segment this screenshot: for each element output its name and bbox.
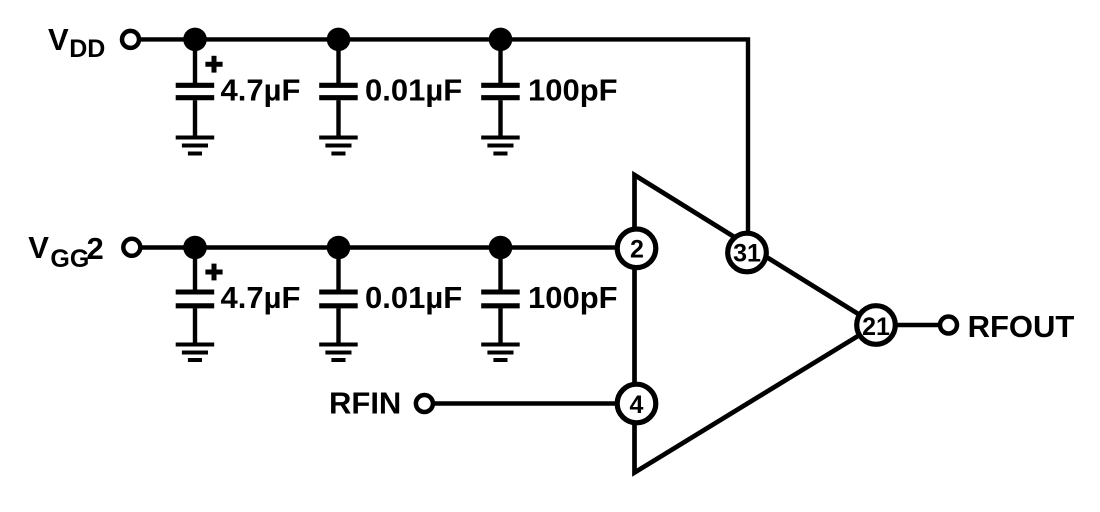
svg-text:4.7µF: 4.7µF	[221, 280, 301, 315]
svg-text:V: V	[28, 230, 49, 265]
svg-text:100pF: 100pF	[528, 280, 618, 315]
svg-text:100pF: 100pF	[528, 72, 618, 107]
svg-text:4.7µF: 4.7µF	[221, 72, 301, 107]
svg-text:2: 2	[87, 231, 104, 266]
svg-text:0.01µF: 0.01µF	[365, 280, 462, 315]
svg-text:GG: GG	[50, 245, 89, 273]
svg-text:V: V	[48, 22, 69, 57]
svg-text:4: 4	[630, 391, 644, 419]
svg-text:31: 31	[733, 240, 761, 268]
svg-text:2: 2	[630, 236, 644, 264]
svg-text:0.01µF: 0.01µF	[365, 72, 462, 107]
svg-text:21: 21	[862, 313, 890, 341]
svg-text:RFIN: RFIN	[329, 386, 401, 421]
svg-text:RFOUT: RFOUT	[968, 309, 1075, 344]
svg-text:DD: DD	[69, 35, 105, 63]
